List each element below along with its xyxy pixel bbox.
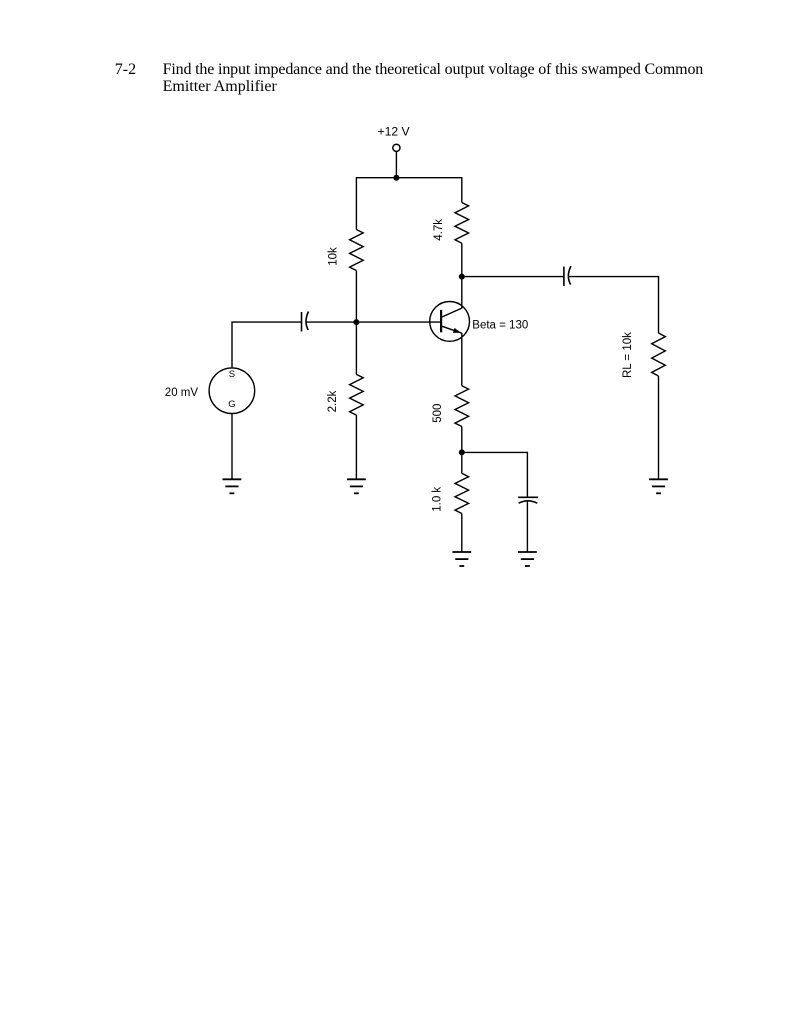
wire RE1 to emitter node	[461, 427, 463, 474]
svg-text:500: 500	[432, 404, 444, 423]
wire top rail	[356, 178, 461, 230]
capacitor C2 output coupling	[564, 266, 571, 286]
wire R1 to base node	[355, 271, 357, 375]
svg-text:S: S	[229, 369, 235, 380]
capacitor C3 bypass	[518, 497, 538, 503]
wire RC to collector node	[461, 243, 463, 276]
svg-text:20 mV: 20 mV	[165, 387, 199, 399]
wire C1 to base node	[306, 321, 441, 323]
transistor Q1	[430, 302, 470, 342]
svg-text:4.7k: 4.7k	[433, 219, 445, 241]
ground under RL	[649, 479, 668, 493]
ground under C3	[518, 552, 537, 566]
problem statement line 2	[163, 78, 277, 96]
resistor R1 10k	[350, 230, 364, 271]
capacitor C1 input coupling	[302, 312, 309, 332]
wire source to ground	[231, 414, 233, 480]
wire RL to ground	[658, 376, 660, 479]
wire C2 to RL	[568, 277, 658, 333]
svg-text:2.2k: 2.2k	[327, 390, 339, 412]
svg-text:1.0 k: 1.0 k	[431, 487, 443, 512]
wire collector node to C2	[462, 276, 564, 278]
svg-text:+12 V: +12 V	[377, 124, 410, 138]
resistor RE1 500	[455, 386, 469, 427]
svg-text:10k: 10k	[327, 247, 339, 266]
wire source to C1	[232, 322, 302, 368]
ground under R2	[347, 479, 366, 493]
ground under RE2	[452, 552, 471, 566]
svg-text:RL = 10k: RL = 10k	[622, 332, 634, 378]
wire VCC stub	[395, 152, 397, 178]
svg-text:G: G	[228, 399, 235, 410]
problem statement line 1	[163, 61, 704, 79]
power terminal +12V	[393, 144, 400, 151]
wire collector	[461, 277, 463, 309]
wire C3 to ground	[526, 501, 528, 552]
node VCC junction	[393, 175, 399, 181]
resistor RE2 1.0 k	[455, 473, 469, 513]
wire R2 to ground	[355, 415, 357, 479]
wire emitter node to C3	[462, 452, 528, 497]
svg-text:Beta = 130: Beta = 130	[472, 320, 528, 332]
wire emitter	[461, 333, 463, 386]
node base junction	[353, 319, 359, 325]
resistor RC 4.7k	[455, 203, 469, 244]
ground under source	[223, 479, 242, 493]
node emitter junction	[459, 449, 465, 455]
source V1	[209, 368, 255, 414]
resistor R2 2.2k	[350, 374, 364, 415]
resistor RL 10k	[652, 333, 666, 376]
problem number 7-2	[115, 61, 136, 79]
wire RE2 to ground	[461, 514, 463, 553]
node collector junction	[459, 274, 465, 280]
